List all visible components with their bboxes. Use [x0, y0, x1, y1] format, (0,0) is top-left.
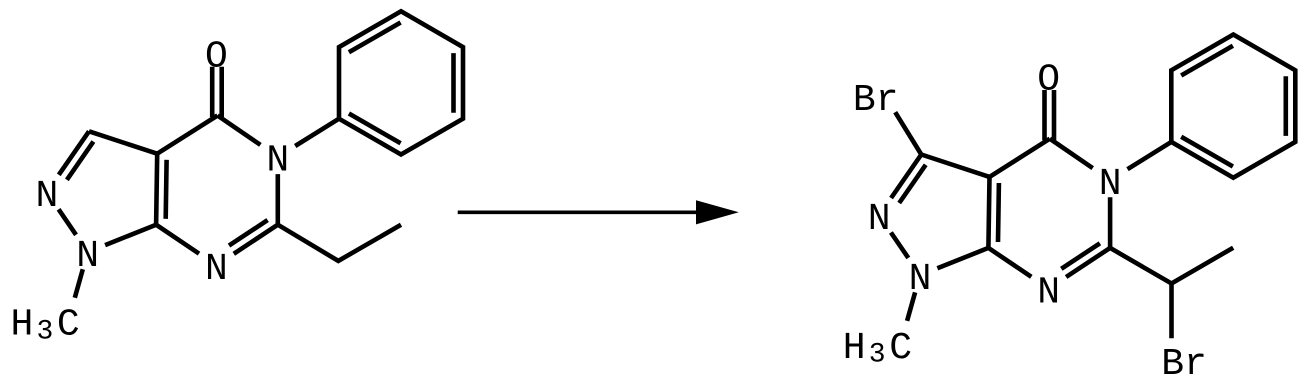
- product: bond C3a-C3: [921, 155, 989, 177]
- product: bond N5-phenyl: [1128, 142, 1172, 169]
- svg-text:N: N: [35, 175, 58, 218]
- svg-text:O: O: [205, 35, 228, 78]
- reactant: bond N1-C7a: [105, 225, 156, 245]
- product: bond N1-C7a: [937, 248, 988, 268]
- svg-text:H: H: [843, 327, 866, 370]
- product: C6=N7 double bond: [1066, 248, 1110, 277]
- svg-text:Br: Br: [1161, 343, 1207, 383]
- product: bond N1-CH3 (N-methyl): [907, 292, 915, 321]
- product: C7a=C3a fused double bond: [988, 177, 989, 248]
- product: phenyl ring: [1171, 35, 1295, 178]
- reactant: C3=N2 double bond: [59, 131, 89, 175]
- svg-text:C: C: [889, 327, 912, 370]
- reactant: bond N7-C7a: [156, 225, 199, 254]
- product: bond N5-C6: [1108, 197, 1113, 248]
- reactant: C4=O double bond: [210, 67, 215, 117]
- product: bond C3-Br: [895, 112, 921, 154]
- svg-text:N: N: [1037, 271, 1060, 314]
- svg-text:C: C: [57, 304, 80, 347]
- product: bond N2-N1: [891, 233, 908, 258]
- product: phenyl inner double bond lines: [1181, 46, 1233, 76]
- svg-text:O: O: [1037, 59, 1060, 102]
- reactant: bond C4-N5: [218, 116, 261, 145]
- product: bond N7-C7a: [988, 248, 1031, 277]
- svg-text:H: H: [10, 304, 33, 347]
- reaction arrow: [458, 211, 700, 215]
- product: bond CH-Br: [1169, 284, 1174, 339]
- reactant: phenyl inner double bond lines: [349, 23, 401, 53]
- product: 1-bromoethyl bonds C6-CH-CH3: [1110, 248, 1233, 284]
- reactant: C7a=C3a fused double bond: [156, 154, 157, 225]
- svg-text:N: N: [205, 248, 228, 291]
- reactant: bond N2-N1: [59, 209, 76, 235]
- product: C4=O double bond: [1042, 90, 1047, 140]
- reactant: bond N5-C6: [275, 174, 280, 225]
- svg-text:N: N: [76, 235, 99, 278]
- reactant: bond N5-phenyl: [295, 119, 339, 146]
- svg-text:N: N: [868, 198, 891, 241]
- reactant: ethyl group bonds C6-CH2-CH3: [278, 225, 401, 261]
- product: bond C3a-C4: [990, 139, 1050, 177]
- reactant: C6=N7 double bond: [234, 225, 278, 254]
- reactant: bond N1-CH3 (N-methyl): [75, 269, 83, 298]
- product: C3=N2 double bond: [891, 155, 921, 199]
- reactant: bond C3a-C3: [89, 131, 157, 153]
- reactant: bond C3a-C4: [157, 116, 217, 154]
- reactant: phenyl ring: [339, 11, 463, 154]
- svg-text:3: 3: [869, 340, 886, 371]
- product: bond C4-N5: [1050, 139, 1093, 168]
- svg-text:3: 3: [36, 316, 53, 347]
- svg-text:N: N: [909, 258, 932, 301]
- svg-text:Br: Br: [853, 79, 899, 122]
